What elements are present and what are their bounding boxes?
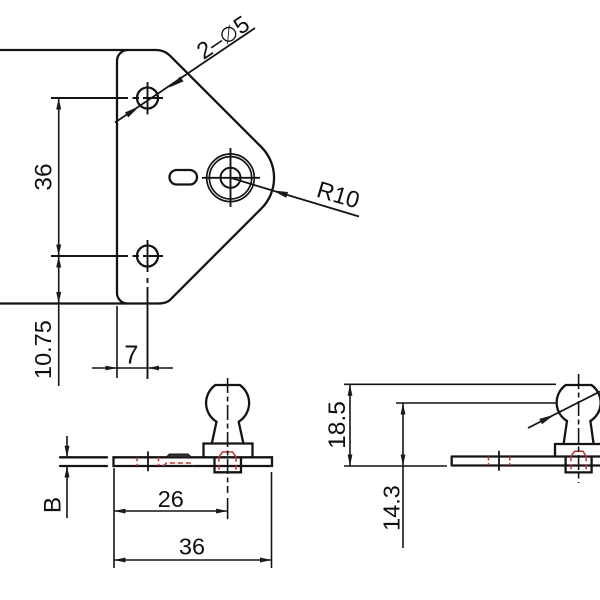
arrow 18.5 top — [348, 384, 353, 396]
hole centerline tick right view — [498, 452, 500, 471]
dim 14.3 line — [402, 403, 404, 548]
svg-text:10.75: 10.75 — [30, 320, 56, 379]
flange left view — [204, 444, 253, 458]
ext 36 right — [271, 472, 273, 568]
stud centerline left view — [227, 378, 229, 493]
shared bottom ext — [344, 465, 447, 467]
ext 26 right (stud cl) — [227, 498, 229, 519]
bottom hole crosshair vertical — [147, 240, 149, 272]
leader 2-d5 — [115, 28, 255, 123]
hidden hole walls left view — [136, 457, 138, 466]
arrow B bottom — [65, 466, 70, 478]
front view left edge with fillets — [117, 50, 128, 304]
hole centerline tick left view — [147, 452, 149, 471]
nut below plate right view — [566, 457, 592, 473]
leader R10 — [231, 178, 360, 217]
center hole crosshair horizontal — [202, 177, 260, 179]
arrow 14.3 top — [401, 403, 406, 415]
hidden louver underside left view — [163, 463, 194, 466]
svg-text:14.3: 14.3 — [379, 485, 405, 531]
text 18.5 — [324, 401, 351, 449]
flange right view — [555, 444, 600, 457]
arrow dim10.75 bottom — [56, 292, 61, 304]
svg-text:26: 26 — [158, 486, 184, 512]
dim B line — [66, 436, 68, 518]
dim 26 line — [114, 510, 228, 512]
svg-text:36: 36 — [179, 534, 205, 560]
leader through ball — [528, 392, 600, 429]
svg-text:B: B — [40, 497, 67, 513]
text 14.3 — [379, 485, 405, 531]
hidden stud sides right view — [570, 456, 572, 471]
text 10.75 — [30, 320, 56, 379]
arrow dim10.75 top — [56, 256, 61, 268]
nut below plate left view — [215, 457, 242, 472]
text 2-d5 — [192, 11, 254, 65]
text B — [40, 497, 67, 513]
ball left view — [206, 385, 249, 422]
stud centerline right view — [578, 374, 580, 483]
arrow 14.3 bottom — [401, 455, 406, 467]
text 36 front — [30, 163, 57, 190]
arrow dim36 top — [56, 98, 61, 110]
top hole — [137, 88, 158, 109]
arrow leader2d5 upper — [169, 76, 184, 87]
arrow dim7 right — [148, 366, 160, 371]
arrow 36b left — [114, 558, 126, 563]
arrow 26 left — [114, 509, 126, 514]
bottom hole crosshair horizontal / 36 extension — [51, 255, 163, 257]
hidden hole walls right view — [488, 457, 490, 466]
arrow B top — [65, 446, 70, 458]
svg-text:18.5: 18.5 — [324, 401, 351, 449]
arrow 26 right — [216, 509, 228, 514]
svg-text:36: 36 — [30, 163, 57, 190]
left edge extension for 7 dim — [116, 306, 118, 378]
dim 36 bottom line — [114, 559, 272, 561]
arrow leader2d5 lower — [125, 106, 140, 117]
arrow leaderR10 — [272, 190, 288, 197]
front view plate outline — [0, 50, 274, 304]
side plate main piece — [114, 457, 273, 466]
arrow dim36 bottom — [56, 245, 61, 257]
bottom hole centerline extension down for 7 dim — [147, 278, 149, 379]
svg-text:7: 7 — [124, 342, 138, 370]
top hole crosshair vertical — [147, 82, 149, 115]
louver bump left view — [166, 454, 192, 457]
side plate left cropped piece — [60, 457, 107, 466]
dim 18.5 line — [349, 384, 351, 466]
bottom hole — [137, 246, 158, 267]
hidden stud dome right view — [571, 451, 586, 456]
ext 14.3 top — [396, 402, 556, 404]
right plate — [452, 457, 600, 466]
dim 10.75 line — [58, 256, 60, 386]
slot — [170, 170, 198, 185]
arrow ball leader — [539, 415, 554, 425]
center hole crosshair vertical — [230, 148, 232, 207]
arrow 18.5 bottom — [348, 455, 353, 467]
ball right view — [557, 385, 600, 421]
ext 26/36 left — [113, 468, 115, 568]
neck left view — [212, 422, 244, 444]
neck right view — [564, 421, 594, 444]
hidden stud sides left view — [218, 457, 220, 472]
text R10 — [314, 176, 363, 213]
center hole bore — [221, 168, 241, 188]
dim 7 line — [92, 367, 173, 369]
arrow 36b right — [260, 558, 272, 563]
top hole crosshair horizontal / 36 extension — [51, 97, 163, 99]
ext 18.5 top — [344, 383, 556, 385]
hidden stud dome left view — [219, 452, 236, 457]
dim 36 line — [58, 98, 60, 256]
arrow dim7 left — [106, 366, 118, 371]
